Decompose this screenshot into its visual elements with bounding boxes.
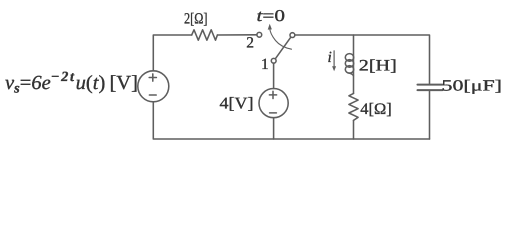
wire resistor to switch terminal 2 <box>217 34 257 36</box>
source vs minus sign <box>149 94 156 96</box>
capacitor C 50[uF] top plate <box>418 84 443 86</box>
switch blade <box>275 37 291 59</box>
current i arrow line <box>333 51 335 68</box>
source vs plus sign <box>149 74 156 81</box>
inductor L 2[H] coil loop 2 <box>345 60 353 68</box>
current i arrowhead <box>332 66 336 71</box>
svg-text:4[Ω]: 4[Ω] <box>360 101 392 118</box>
switch terminal 2 circle <box>257 32 262 37</box>
inductor L 2[H] bottom hook <box>349 73 353 76</box>
source 4V circle <box>259 89 288 118</box>
svg-text:1: 1 <box>261 56 269 73</box>
switch pivot circle <box>290 33 295 38</box>
svg-text:2: 2 <box>246 34 254 51</box>
resistor R 2[ohm] zigzag <box>192 30 218 40</box>
source 4V plus sign <box>269 91 276 98</box>
switch terminal 1 circle <box>271 58 276 63</box>
wire resistor 4ohm to bottom rail <box>353 120 355 139</box>
source vs circle <box>138 71 169 102</box>
svg-text:2[Ω]: 2[Ω] <box>184 10 208 27</box>
wire 4V source bottom to bottom rail <box>273 118 275 139</box>
wire terminal 1 down to 4V source top <box>273 63 275 88</box>
resistor R 4[ohm] vertical zigzag <box>349 93 358 120</box>
svg-text:2[H]: 2[H] <box>359 57 397 74</box>
wire switch pivot to top-right corner and down right side <box>295 35 430 84</box>
wire top rail through inductor axis down to resistor 4[ohm] <box>353 35 355 93</box>
switch motion arrowhead <box>268 24 272 30</box>
source 4V minus sign <box>270 112 277 114</box>
wire capacitor bottom to bottom rail <box>429 91 431 139</box>
wire bottom rail <box>153 102 429 139</box>
inductor L 2[H] coil loop 3 <box>345 66 353 74</box>
svg-text:4[V]: 4[V] <box>220 93 254 112</box>
inductor L 2[H] coil loop 1 <box>345 54 353 62</box>
wire top-left rail <box>153 35 191 71</box>
svg-text:i: i <box>328 49 332 66</box>
svg-text:vs=6e−2tu(t) [V]: vs=6e−2tu(t) [V] <box>5 70 138 97</box>
switch motion arrow curve <box>270 29 292 50</box>
svg-text:50[μF]: 50[μF] <box>442 77 503 94</box>
svg-text:t=0: t=0 <box>257 6 286 25</box>
capacitor C 50[uF] bottom plate <box>418 89 443 91</box>
